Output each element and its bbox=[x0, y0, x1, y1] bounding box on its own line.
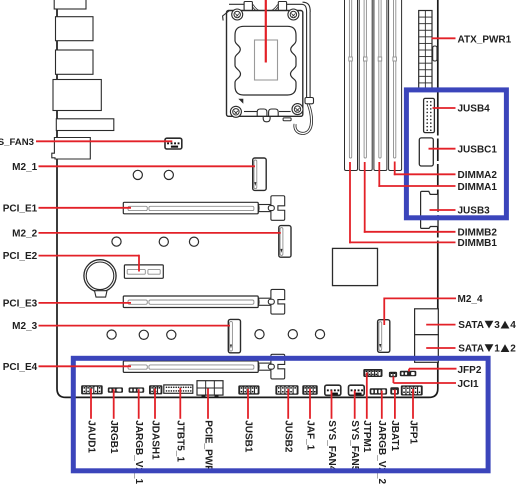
svg-text:JRGB1: JRGB1 bbox=[108, 420, 119, 454]
svg-text:JFP2: JFP2 bbox=[458, 365, 482, 376]
svg-text:M2_1: M2_1 bbox=[12, 162, 37, 173]
svg-text:M2_4: M2_4 bbox=[458, 294, 483, 305]
svg-text:JTPM1: JTPM1 bbox=[361, 420, 372, 453]
svg-text:M2_2: M2_2 bbox=[12, 229, 37, 240]
svg-text:JUSB3: JUSB3 bbox=[458, 206, 491, 217]
svg-text:M2_3: M2_3 bbox=[12, 321, 37, 332]
svg-text:JUSB4: JUSB4 bbox=[458, 104, 491, 115]
svg-text:PCI_E4: PCI_E4 bbox=[3, 362, 38, 373]
svg-text:DIMMA2: DIMMA2 bbox=[458, 170, 498, 181]
svg-text:SYS_FAN4: SYS_FAN4 bbox=[326, 420, 337, 472]
svg-text:JARGB_V2_1: JARGB_V2_1 bbox=[133, 420, 144, 484]
svg-text:JCI1: JCI1 bbox=[458, 379, 480, 390]
svg-text:DIMMB2: DIMMB2 bbox=[458, 227, 498, 238]
svg-text:DIMMB1: DIMMB1 bbox=[458, 238, 498, 249]
svg-text:2: 2 bbox=[510, 344, 516, 355]
svg-text:JBAT1: JBAT1 bbox=[389, 420, 400, 451]
svg-text:JFP1: JFP1 bbox=[407, 420, 418, 444]
svg-text:PCI_E3: PCI_E3 bbox=[3, 299, 38, 310]
svg-text:3: 3 bbox=[494, 320, 500, 331]
svg-text:PCIE_PWR: PCIE_PWR bbox=[202, 420, 213, 473]
svg-text:1: 1 bbox=[494, 344, 500, 355]
svg-text:PCI_E2: PCI_E2 bbox=[3, 251, 38, 262]
svg-text:JTBT5_1: JTBT5_1 bbox=[175, 420, 186, 462]
svg-text:DIMMA1: DIMMA1 bbox=[458, 182, 498, 193]
svg-text:JUSBC1: JUSBC1 bbox=[458, 144, 498, 155]
svg-text:JUSB1: JUSB1 bbox=[242, 420, 253, 453]
svg-text:SYS_FAN5: SYS_FAN5 bbox=[349, 420, 360, 472]
svg-text:SATA: SATA bbox=[458, 320, 484, 331]
svg-text:S_FAN3: S_FAN3 bbox=[0, 137, 34, 148]
svg-text:4: 4 bbox=[510, 320, 516, 331]
svg-text:ATX_PWR1: ATX_PWR1 bbox=[458, 34, 512, 45]
svg-text:JARGB_V2_2: JARGB_V2_2 bbox=[376, 420, 387, 484]
svg-text:SATA: SATA bbox=[458, 344, 484, 355]
svg-text:PCI_E1: PCI_E1 bbox=[3, 203, 38, 214]
svg-text:JUSB2: JUSB2 bbox=[283, 420, 294, 453]
svg-text:JDASH1: JDASH1 bbox=[149, 420, 160, 460]
svg-text:JAUD1: JAUD1 bbox=[85, 420, 96, 453]
svg-text:JAF_1: JAF_1 bbox=[304, 420, 315, 450]
